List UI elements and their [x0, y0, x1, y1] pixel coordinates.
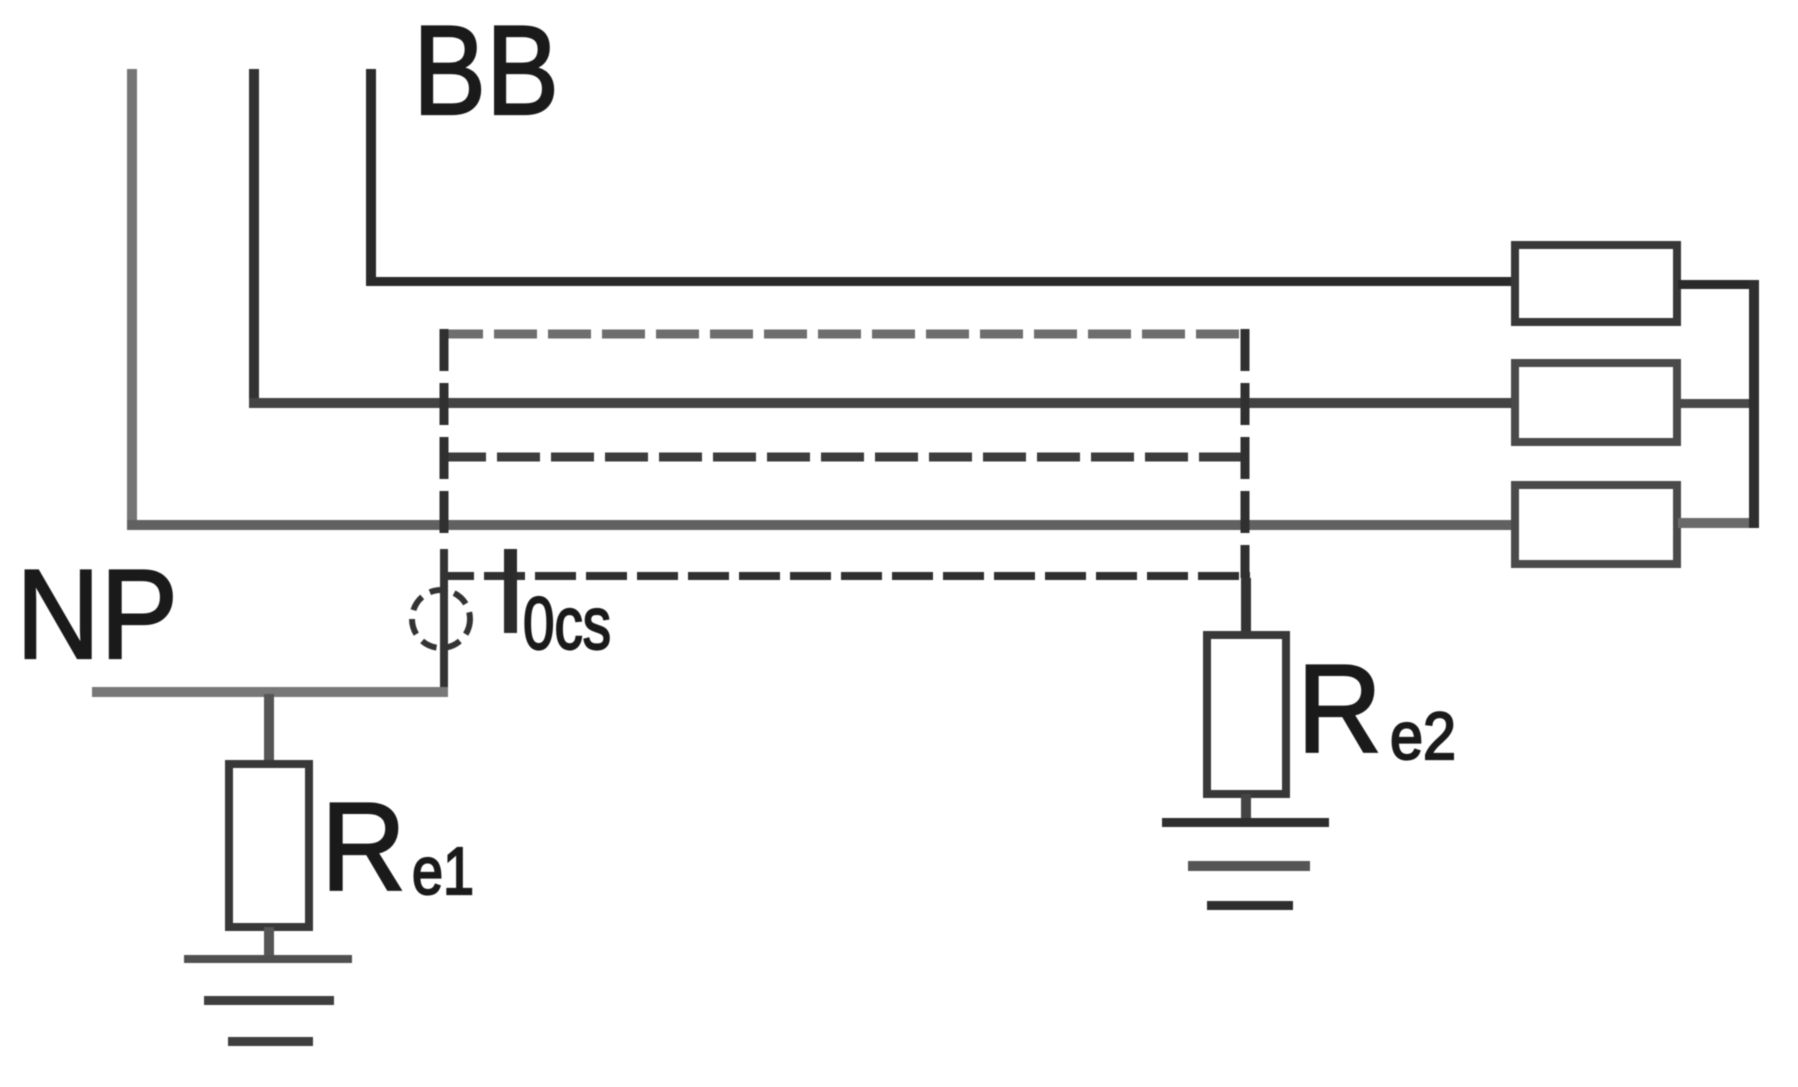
- svg-text:R: R: [321, 778, 406, 917]
- svg-text:R: R: [1297, 640, 1382, 779]
- ground Re1 line 1: [184, 955, 352, 963]
- wire Re2 top stem: [1241, 578, 1251, 635]
- ground Re2 line 2: [1188, 861, 1310, 871]
- svg-text:0cs: 0cs: [523, 582, 611, 665]
- wire vertical V3: [366, 69, 376, 282]
- resistor Re1: [229, 764, 309, 927]
- wire vertical V2: [249, 69, 259, 405]
- wire H1 (BB line to top resistor): [366, 277, 1513, 286]
- wire Re1 bottom stem: [264, 927, 274, 959]
- wire H2 right stub: [1678, 399, 1759, 408]
- dashed box top edge: [440, 330, 1250, 339]
- wire stub from dashed box to NP node: [440, 549, 448, 689]
- wire H1 right stub: [1678, 280, 1759, 289]
- label t0cs (t stem; crossbar is formed by the dashed line): [504, 549, 517, 633]
- ground Re1 line 2: [204, 996, 334, 1005]
- wire H2 (middle line to middle resistor): [249, 398, 1513, 408]
- resistor box middle: [1515, 363, 1677, 442]
- wire Re1 top stem: [264, 694, 274, 764]
- dashed box left edge: [440, 329, 449, 535]
- dashed box bottom edge: [443, 572, 1250, 580]
- resistor Re2: [1207, 635, 1286, 794]
- wire NP horizontal: [92, 687, 448, 697]
- svg-text:e2: e2: [1390, 699, 1456, 774]
- svg-text:e1: e1: [412, 834, 474, 909]
- svg-text:NP: NP: [16, 543, 178, 685]
- svg-text:BB: BB: [413, 0, 559, 141]
- wire Re2 bottom stem: [1241, 794, 1251, 822]
- wire vertical V1 (left bus, gray): [127, 69, 137, 527]
- current-source dashed circle t0cs: [412, 590, 470, 648]
- resistor box top: [1515, 245, 1677, 322]
- ground Re2 line 1: [1162, 818, 1329, 827]
- resistor box bottom: [1515, 485, 1677, 564]
- dashed box internal divider: [443, 453, 1250, 462]
- wire H3 right stub: [1678, 518, 1759, 528]
- ground Re2 line 3: [1207, 901, 1293, 910]
- wire right bus vertical: [1749, 280, 1759, 528]
- ground Re1 line 3: [228, 1037, 313, 1046]
- dashed box right edge: [1241, 329, 1250, 578]
- wire H3 (bottom line to bottom resistor): [127, 520, 1513, 530]
